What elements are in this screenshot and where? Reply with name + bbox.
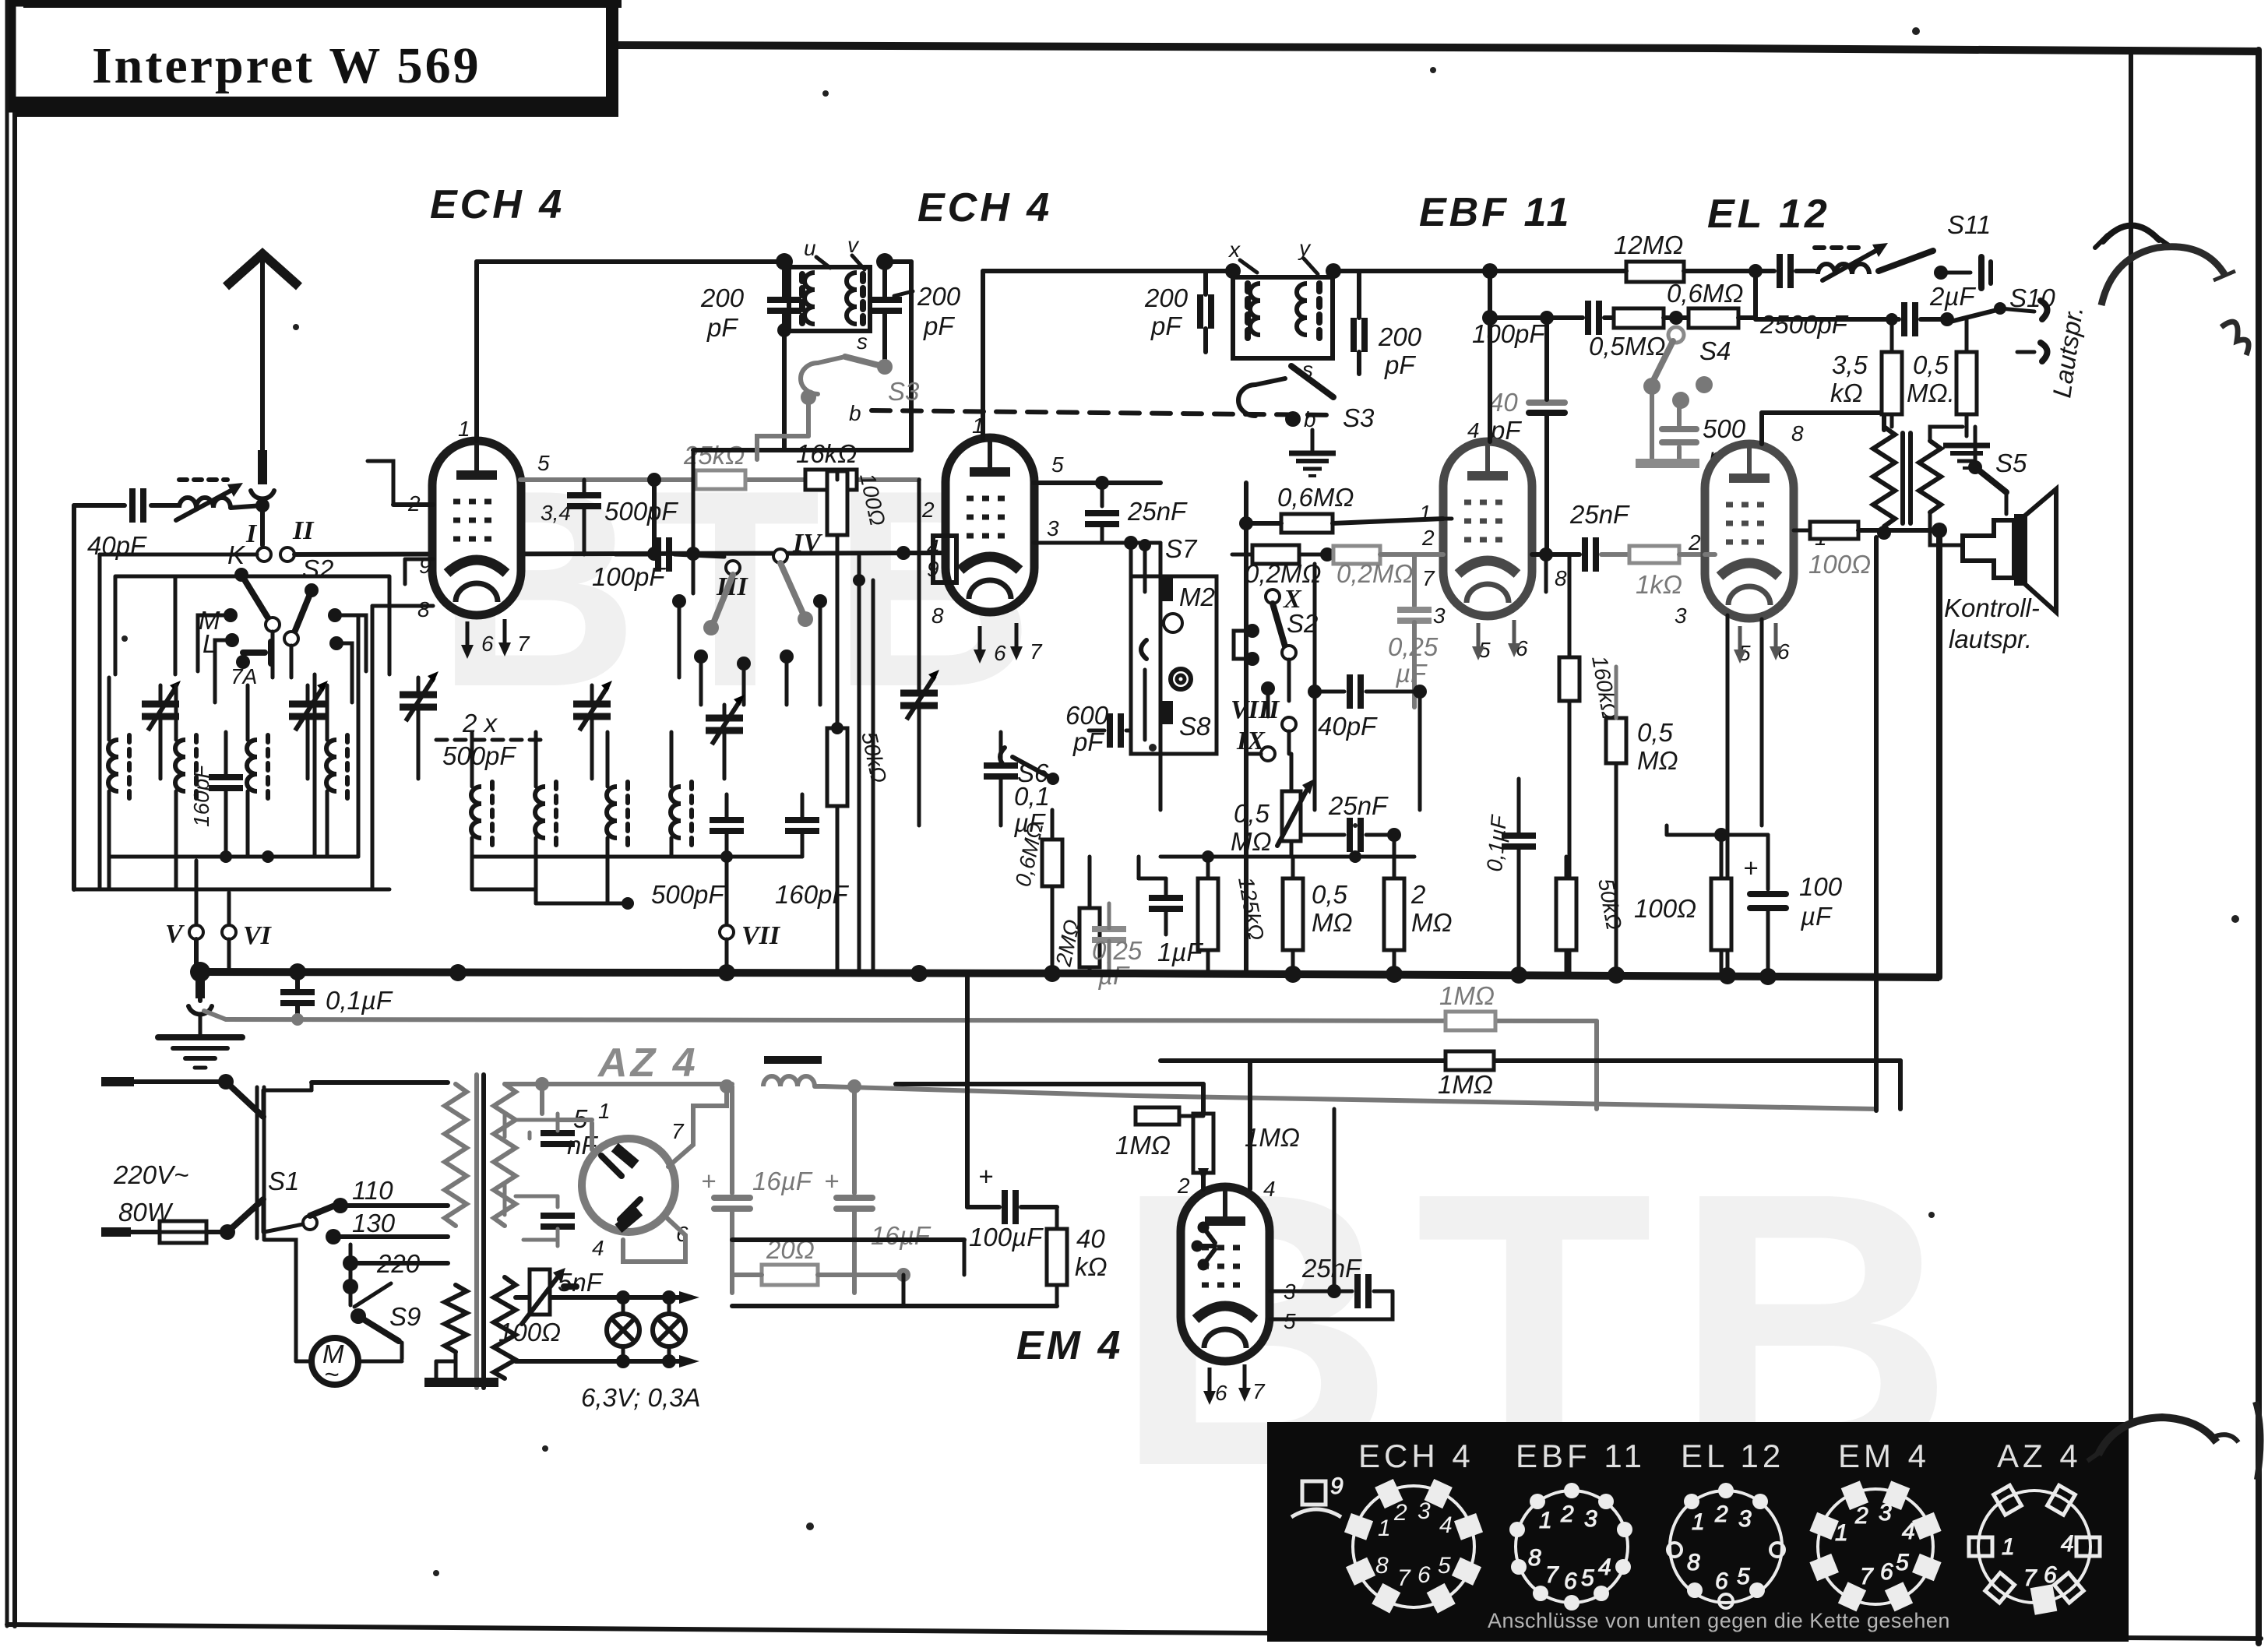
resistor 0,2MOhm right gray (1333, 546, 1443, 588)
IF1 secondary coil (847, 273, 863, 327)
svg-text:500: 500 (1703, 414, 1746, 443)
svg-text:0,5: 0,5 (1234, 799, 1270, 828)
pilot lamp 1 (607, 1297, 639, 1361)
tap 110 (333, 1176, 448, 1213)
ground symbol main (158, 1037, 242, 1068)
resistor 100 Ohm vertical (bias) (1634, 835, 1731, 977)
resistor 0,2MOhm left (1232, 545, 1334, 588)
resistor 16kOhm (796, 439, 857, 490)
panel label EBF11 (1516, 1438, 1646, 1474)
heater arrows V2 (974, 623, 1023, 664)
transformer primary winding (445, 1084, 467, 1226)
wire EBF11 pin1 rc (1443, 517, 1452, 521)
trimmer (osc O2) (573, 681, 612, 779)
wire S1 to transformer (263, 1082, 448, 1117)
border left (7, 0, 15, 1626)
svg-text:2µF: 2µF (1929, 282, 1976, 311)
tuned circuit L4 (326, 685, 347, 857)
wire coil bottoms (74, 850, 389, 889)
ground main (188, 972, 212, 1036)
node y (1298, 236, 1341, 279)
node u (776, 236, 830, 270)
wire pin2 gray drop (1412, 554, 1417, 606)
svg-text:3: 3 (1675, 604, 1687, 628)
svg-text:x: x (1227, 238, 1241, 262)
mains terminal top (101, 1074, 234, 1090)
svg-text:b: b (1304, 407, 1316, 431)
svg-text:kΩ: kΩ (1830, 378, 1863, 407)
capacitor 25nF (AF coupling) (1569, 500, 1630, 572)
heater rail top with arrow (516, 1290, 699, 1304)
oscillator switch contacts (672, 594, 827, 705)
socket EM4 (1809, 1480, 1941, 1611)
svg-text:25nF: 25nF (1569, 500, 1630, 529)
resistor 160kOhm vertical (1559, 554, 1622, 972)
pin labels ECH4 V1 (407, 417, 571, 656)
choke (filter) (763, 1056, 824, 1086)
svg-text:3: 3 (1584, 1506, 1597, 1532)
switch S7 (1139, 534, 1198, 592)
tuned circuit L1 (108, 678, 129, 889)
capacitor 5nF lower (541, 1196, 604, 1297)
svg-text:b: b (849, 401, 861, 425)
capacitor 0,25uF gray (1092, 903, 1143, 990)
svg-text:6: 6 (1880, 1559, 1893, 1585)
AZ4 anode plates (601, 1143, 643, 1232)
svg-text:1: 1 (1692, 1509, 1705, 1535)
box pins 4-9 V2 (933, 536, 956, 583)
tube label ECH4 (first) (430, 182, 565, 227)
capacitor 0,1uF (left column) (984, 732, 1050, 837)
svg-text:3: 3 (1047, 516, 1059, 540)
svg-text:16kΩ: 16kΩ (796, 439, 857, 468)
resistor 1kOhm gray (1629, 546, 1705, 599)
panel label EL12 (1681, 1438, 1784, 1474)
pilot lamp 2 (653, 1297, 685, 1361)
resistor 12MOhm (1359, 231, 1756, 282)
svg-text:1: 1 (1539, 1508, 1552, 1533)
output transformer primary (1873, 427, 1895, 537)
svg-text:500pF: 500pF (442, 741, 516, 770)
svg-text:6: 6 (1417, 1562, 1431, 1588)
svg-text:2 x: 2 x (462, 709, 498, 737)
socket EL12 (1668, 1483, 1784, 1608)
wire bias top (1667, 833, 1721, 837)
wire EL12 grid pin2 (1705, 552, 1715, 557)
svg-text:Interpret W 569: Interpret W 569 (92, 37, 481, 94)
svg-text:7: 7 (1860, 1564, 1874, 1589)
svg-text:4: 4 (2061, 1531, 2074, 1557)
tube label EL12 (1707, 192, 1830, 237)
capacitor 100uF (cathode EL12) (967, 977, 1057, 1251)
svg-text:0,5: 0,5 (1913, 350, 1949, 379)
svg-text:3: 3 (1879, 1500, 1892, 1526)
tuning indicator coil S3a (757, 357, 845, 459)
svg-text:4: 4 (1598, 1554, 1611, 1580)
svg-text:1: 1 (598, 1099, 611, 1123)
AVC line gray long (226, 1013, 1597, 1027)
svg-text:AZ 4: AZ 4 (1997, 1438, 2082, 1474)
mains terminal bottom (101, 1227, 160, 1237)
label Lautspr vertical (2047, 305, 2088, 400)
wire front-end enclosure (115, 576, 389, 674)
svg-text:0,6MΩ: 0,6MΩ (1667, 279, 1743, 308)
switch S1 (226, 1082, 299, 1238)
svg-text:2: 2 (1714, 1501, 1728, 1527)
svg-text:pF: pF (923, 312, 955, 340)
svg-text:I: I (245, 519, 258, 548)
svg-text:8: 8 (1791, 421, 1804, 445)
capacitor 0,25uF (cathode) (1388, 610, 1439, 707)
panel background (1267, 1422, 2129, 1642)
svg-text:pF: pF (1150, 312, 1182, 340)
capacitor 200pF (IF2 left) (1144, 271, 1211, 352)
svg-text:2: 2 (1688, 530, 1701, 554)
socket AZ4 (1969, 1485, 2100, 1613)
motor M (264, 1240, 402, 1389)
switch S8 (1145, 670, 1211, 741)
wire pin5 V1 (screen) (520, 477, 919, 482)
wire secondary to speaker (1930, 427, 1963, 545)
svg-text:V: V (165, 920, 185, 949)
svg-text:6: 6 (1564, 1568, 1577, 1594)
svg-text:S7: S7 (1165, 534, 1198, 563)
IF2 secondary coil (1297, 283, 1319, 346)
wire EL12 cathode drop (1667, 615, 1762, 972)
svg-text:220: 220 (376, 1249, 421, 1278)
svg-text:500pF: 500pF (604, 497, 678, 526)
watermark BTB upper (436, 432, 1045, 745)
resistor 0,5MOhm vertical (output) (1907, 319, 1977, 436)
IF1 frame (789, 267, 870, 331)
line B- return (black mid) (1160, 1061, 1900, 1109)
oscillator coil O1 (471, 732, 492, 889)
svg-text:160pF: 160pF (189, 764, 213, 827)
svg-text:4: 4 (1263, 1177, 1276, 1201)
jack M1 (1141, 640, 1191, 689)
capacitor 100uF (bias) (1714, 828, 1843, 977)
svg-text:EM 4: EM 4 (1016, 1323, 1123, 1368)
svg-text:1: 1 (1378, 1515, 1391, 1541)
svg-text:1: 1 (2002, 1534, 2015, 1560)
svg-text:5: 5 (1896, 1550, 1909, 1575)
svg-text:EBF 11: EBF 11 (1419, 190, 1572, 235)
svg-text:0,1µF: 0,1µF (326, 986, 393, 1015)
wire avc link right (1594, 1021, 1599, 1109)
node VI (222, 921, 273, 950)
svg-text:160pF: 160pF (775, 880, 849, 909)
capacitor 100pF (1472, 301, 1614, 348)
tap 220 (343, 1244, 448, 1305)
wire AZ4 cathode to choke (668, 1079, 734, 1167)
svg-text:0,1: 0,1 (1014, 782, 1050, 811)
aerial coil with arrow (176, 480, 262, 520)
capacitor 25nF (IF coupling) (1085, 497, 1188, 543)
wire AZ4 pin1 (558, 1120, 592, 1149)
output transformer core (1903, 433, 1911, 523)
capacitor 40pF (IF3) (1308, 564, 1427, 810)
tube label AZ4 (597, 1040, 699, 1086)
trimmer (osc O4) (706, 695, 745, 779)
svg-text:VI: VI (243, 921, 273, 950)
panel label ECH4 (1358, 1438, 1474, 1474)
heater arrows EL12 (1734, 623, 1782, 664)
capacitor 25nF (EM4 grid) (1270, 1254, 1393, 1308)
wire IF1 right vertical (693, 262, 911, 450)
capacitor 200pF (IF1 left) (700, 262, 801, 450)
svg-text:40: 40 (1076, 1224, 1105, 1253)
svg-text:kΩ: kΩ (1075, 1252, 1108, 1281)
switch S3a (801, 329, 920, 425)
heater arrows V1 (461, 619, 511, 659)
wire to nodes V VI (196, 861, 229, 925)
trimmer C (L1) (142, 681, 181, 779)
svg-text:12MΩ: 12MΩ (1614, 231, 1683, 259)
capacitor 500pF (osc pad) (651, 794, 744, 925)
pin labels EL12 (1675, 421, 1827, 665)
wire speaker top to S5 (2005, 492, 2009, 514)
svg-text:1kΩ: 1kΩ (1636, 570, 1682, 599)
resistor 2MOhm vertical (det) (1384, 857, 1453, 975)
svg-text:M2: M2 (1179, 583, 1215, 611)
wire pin3 drop (1159, 543, 1163, 810)
pin labels EM4 (1177, 1174, 1296, 1405)
capacitor 2uF (1756, 282, 1976, 336)
svg-text:0,25: 0,25 (1388, 632, 1439, 661)
switch S4 (1643, 327, 1731, 409)
resistor 0,5MOhm vertical (det) (1283, 857, 1353, 975)
resistor 1MOhm gray (1439, 981, 1495, 1030)
svg-text:S2: S2 (302, 554, 333, 583)
resistor 125kOhm vertical (1198, 857, 1269, 973)
node V (165, 920, 203, 949)
ground output divider (1943, 445, 1990, 468)
transformer heater winding (445, 1277, 516, 1378)
wire grid V1 left (pin2) (368, 461, 433, 505)
capacitor 200pF (IF2 right) (1354, 271, 1422, 379)
label Kontroll-lautspr (1944, 593, 2040, 653)
wire V VI to bus (196, 939, 229, 975)
gray switch arm III-IV (703, 563, 813, 635)
svg-text:500pF: 500pF (651, 880, 725, 909)
wire front-end outer loop (100, 554, 358, 889)
capacitor 40pF (aerial) (74, 488, 178, 560)
tube EBF11 V3 (1443, 442, 1532, 616)
node III (716, 561, 748, 601)
wire top bus right corner (2129, 51, 2133, 1425)
resistor 0,6MOhm vertical (AVC) (1011, 810, 1062, 972)
pin labels ECH4 V2 (921, 414, 1064, 665)
wire gray avc left end (204, 1011, 226, 1019)
wire osc bottoms (472, 850, 802, 910)
output transformer secondary (1919, 441, 1941, 512)
terminal Lautspr bottom (2017, 343, 2048, 361)
wire anode line V2 to IF2 (983, 271, 1480, 393)
svg-text:7: 7 (1030, 639, 1043, 664)
svg-text:S11: S11 (1947, 210, 1991, 239)
tuned circuit L2 (175, 685, 196, 889)
svg-text:200: 200 (700, 283, 745, 312)
svg-text:16µF: 16µF (752, 1167, 813, 1195)
label 220V 80W (113, 1160, 188, 1227)
svg-text:40: 40 (1489, 388, 1518, 417)
svg-text:ECH 4: ECH 4 (1358, 1438, 1474, 1474)
node v (847, 233, 893, 270)
wire EL12 anode pin8 (1762, 413, 1884, 444)
panel label EM4 (1838, 1438, 1930, 1474)
node VIII IX (1231, 660, 1296, 761)
spigot key symbol (1291, 1473, 1344, 1517)
svg-text:MΩ.: MΩ. (1907, 378, 1955, 407)
capacitor 160pF (antenna) (189, 732, 243, 857)
label 2x500pF (436, 709, 545, 770)
title box Interpret W 569 (12, 0, 622, 117)
tube EL12 V4 (1705, 444, 1794, 618)
svg-text:1: 1 (458, 417, 470, 441)
capacitor 0,1uF (mains) (280, 977, 393, 1019)
resistor 0,6MOhm (grid EBF11) (1239, 483, 1443, 972)
svg-text:7: 7 (517, 632, 530, 656)
capacitor 25nF (det) (1301, 791, 1401, 857)
capacitor 0,1uF vertical label (1482, 779, 1536, 972)
svg-text:6,3V; 0,3A: 6,3V; 0,3A (581, 1383, 701, 1412)
capacitor 500pF (tone) (1636, 389, 1746, 471)
pin labels EBF11 (1419, 418, 1567, 662)
svg-text:8: 8 (1555, 566, 1567, 590)
svg-text:3: 3 (1417, 1498, 1431, 1524)
svg-text:100Ω: 100Ω (1634, 894, 1696, 923)
svg-text:2500pF: 2500pF (1759, 310, 1849, 339)
svg-text:6: 6 (2044, 1562, 2057, 1588)
ground S3b (1289, 430, 1336, 476)
svg-text:MΩ: MΩ (1637, 746, 1678, 775)
svg-text:8: 8 (1375, 1553, 1389, 1579)
svg-text:EL 12: EL 12 (1681, 1438, 1784, 1474)
svg-text:2: 2 (921, 498, 935, 522)
svg-text:0,2MΩ: 0,2MΩ (1245, 559, 1321, 588)
wire V2 pin5 (1034, 476, 1160, 506)
capacitor 16uF first (701, 1086, 813, 1293)
svg-text:5: 5 (1438, 1553, 1451, 1579)
svg-text:3: 3 (1738, 1506, 1752, 1532)
svg-text:Kontroll-: Kontroll- (1944, 593, 2040, 622)
switch S3b with coil (1238, 357, 1375, 432)
svg-text:MΩ: MΩ (1312, 908, 1353, 937)
svg-text:s: s (857, 329, 868, 354)
svg-text:EL 12: EL 12 (1707, 192, 1830, 237)
speaker Kontroll-lautspr (1963, 489, 2056, 612)
svg-text:0,6MΩ: 0,6MΩ (1277, 483, 1354, 512)
svg-text:200: 200 (917, 282, 961, 311)
svg-text:ECH 4: ECH 4 (917, 185, 1052, 231)
label S10 (2009, 283, 2055, 312)
svg-text:25nF: 25nF (1328, 791, 1389, 820)
wire AZ4 pin6 (623, 1215, 685, 1262)
resistor 25kOhm (683, 441, 745, 489)
switch S2 (band) (284, 554, 333, 646)
AZ4 pin labels (592, 1099, 688, 1260)
svg-text:2: 2 (1560, 1501, 1574, 1527)
svg-text:1MΩ: 1MΩ (1245, 1123, 1300, 1152)
svg-text:100pF: 100pF (1472, 319, 1546, 348)
capacitor 500pF (screen) (567, 480, 678, 554)
hook top right wire (2095, 225, 2170, 248)
wire 5nF caps to winding (516, 1120, 558, 1240)
svg-text:S3: S3 (888, 377, 920, 406)
variable capacitor (right gang) (900, 480, 939, 825)
svg-text:0,2MΩ: 0,2MΩ (1336, 559, 1413, 588)
svg-text:4: 4 (592, 1236, 604, 1260)
bus right end up (1936, 530, 1942, 977)
switch S10 (1947, 302, 2034, 322)
svg-text:6: 6 (994, 641, 1006, 665)
svg-text:100pF: 100pF (592, 562, 666, 591)
svg-text:8: 8 (1528, 1545, 1541, 1571)
wire V2 pin1 up (981, 393, 985, 439)
svg-text:5: 5 (1581, 1565, 1594, 1591)
contact M2 (1160, 578, 1215, 632)
line to EM4 grid (black) (896, 1082, 1203, 1086)
resistor 3,5kOhm vertical (1830, 313, 1902, 427)
svg-text:6: 6 (481, 632, 494, 656)
svg-text:7: 7 (1252, 1379, 1266, 1403)
svg-text:ECH 4: ECH 4 (430, 182, 565, 227)
punch hole bottom right (2087, 1402, 2261, 1480)
svg-text:+: + (1743, 854, 1758, 882)
svg-text:S3: S3 (1343, 403, 1375, 432)
IF2 frame (1233, 277, 1333, 358)
socket ECH4 (1344, 1479, 1483, 1614)
svg-text:220V~: 220V~ (113, 1160, 188, 1189)
node pin5 net (647, 473, 661, 554)
wire osc verticals to bus (853, 556, 873, 972)
IF1 primary coil (802, 273, 815, 327)
tube ECH4 V2 (946, 438, 1034, 612)
svg-text:2: 2 (1854, 1503, 1868, 1529)
transformer ground bar (424, 1352, 498, 1382)
svg-text:110: 110 (352, 1176, 393, 1205)
svg-text:100Ω: 100Ω (1808, 550, 1871, 579)
tube label ECH4 (second) (917, 185, 1052, 231)
resistor 100 Ohm (hum pot) (498, 1268, 576, 1346)
resistor 1MOhm (second) (1438, 1051, 1494, 1099)
svg-text:II: II (292, 516, 315, 545)
trimmer C (L3) (289, 681, 328, 779)
capacitor 40pF (anode feedback) (1489, 311, 1565, 554)
panel caption (1488, 1609, 1950, 1632)
oscillator coil O2 (535, 732, 556, 903)
svg-text:lautspr.: lautspr. (1949, 625, 2032, 653)
resistor 20 Ohm (732, 1235, 910, 1285)
svg-text:µF: µF (1800, 902, 1833, 931)
svg-text:S1: S1 (268, 1167, 299, 1195)
svg-text:EBF 11: EBF 11 (1516, 1438, 1646, 1474)
node II (280, 516, 315, 561)
svg-text:200: 200 (1144, 283, 1189, 312)
svg-text:1µF: 1µF (1157, 938, 1203, 966)
svg-text:4: 4 (1467, 418, 1480, 442)
IF2 primary coil (1248, 283, 1260, 346)
svg-text:2: 2 (1410, 880, 1425, 909)
transformer core (477, 1075, 484, 1388)
svg-text:0,5: 0,5 (1637, 718, 1674, 747)
svg-text:7: 7 (671, 1119, 685, 1143)
svg-text:80W: 80W (118, 1198, 174, 1227)
tube EM4 V5 (1181, 1187, 1270, 1361)
tap 130 (326, 1209, 448, 1244)
svg-text:600: 600 (1065, 701, 1109, 730)
svg-text:9: 9 (1330, 1473, 1344, 1499)
